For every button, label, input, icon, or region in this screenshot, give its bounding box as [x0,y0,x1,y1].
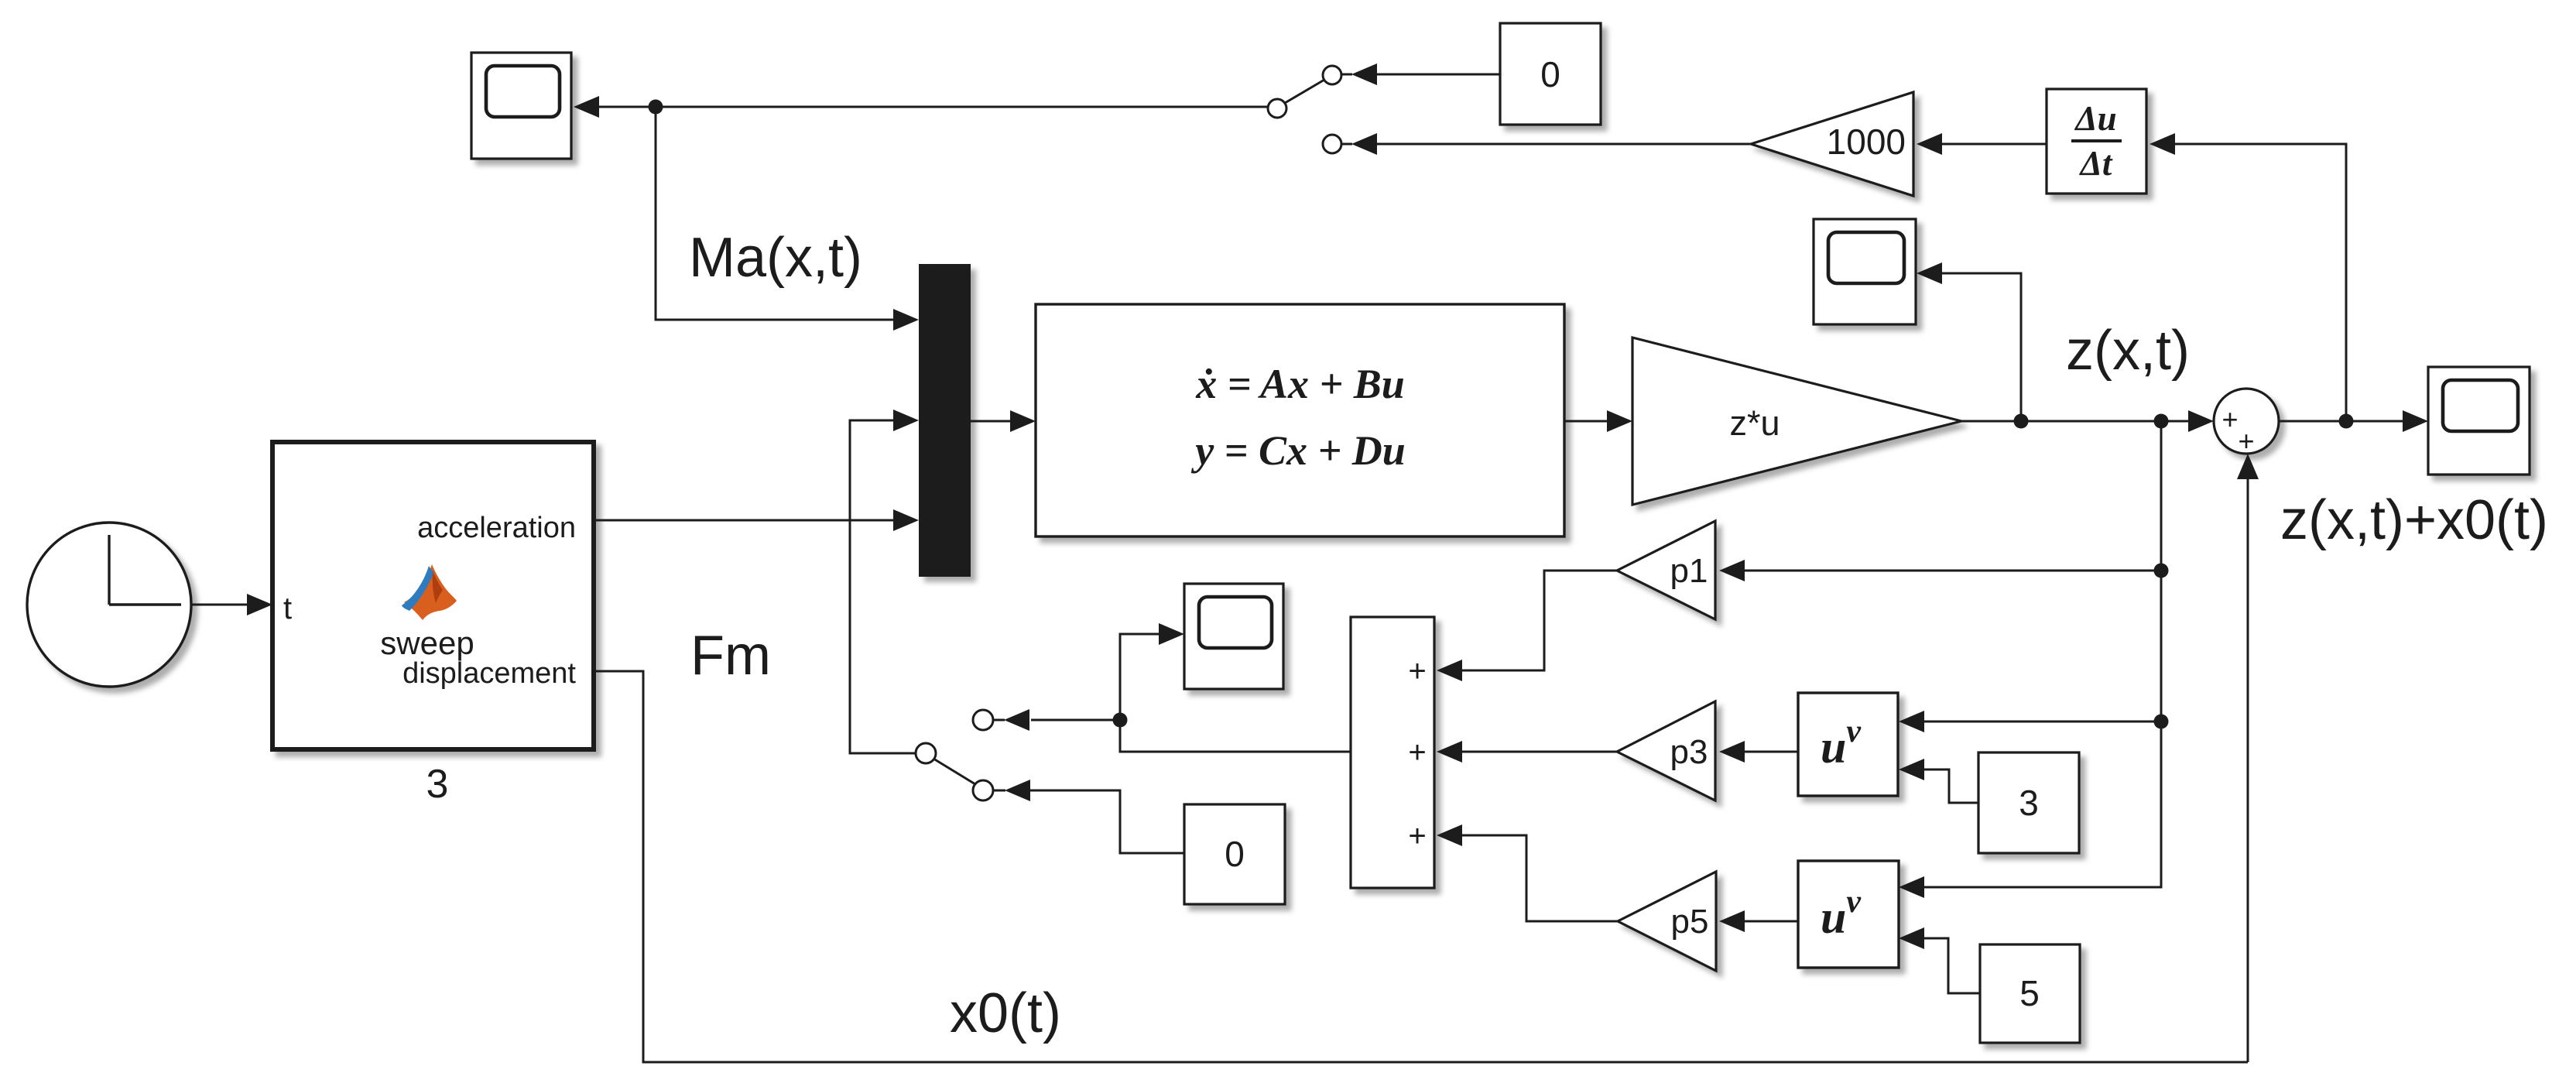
junction dot z(x,t) at 2611 [2014,414,2029,429]
wire state-space to gain z*u [1564,410,1632,432]
svg-text:sweep: sweep [380,625,474,661]
wire sum to Scope3 [2279,410,2428,432]
manual switch (bottom, Fm) [916,710,1005,800]
wire gain 1000 input from Delta block [1917,133,2047,155]
block Delta u / Delta t (difference) [2047,89,2146,194]
wire clock to subsystem [192,594,272,615]
wire u^v to gain p3 [1719,741,1798,763]
gain 1000 [1751,92,1913,196]
scope block Scope2 [1814,219,1916,324]
wire to bottom switch upper throw [1004,709,1120,731]
svg-text:0: 0 [1540,54,1560,94]
junction dot sum output [2339,414,2354,429]
wire Delta block input from feedback [2150,133,2346,421]
constant 5 [1980,944,2080,1043]
svg-text:y = Cx + Du: y = Cx + Du [1190,427,1406,474]
junction dot feedback p1 row [2154,564,2169,578]
svg-text:displacement: displacement [402,657,576,690]
manual switch (top) [1268,66,1352,153]
svg-text:p3: p3 [1670,733,1708,771]
label z(x,t) [2066,320,2190,382]
wire to Scope2 [1917,262,2021,421]
math block u^v (power) upper [1798,693,1898,796]
wire scope1 to top switch pole [599,106,1267,108]
wire acceleration to mux input 3 [594,509,919,531]
wire p1 to sum input 1 [1437,571,1617,681]
svg-text:Δt: Δt [2079,144,2113,183]
svg-text:0: 0 [1225,834,1245,874]
wire z*u output z(x,t) [1961,410,2214,432]
label Fm [690,625,771,687]
svg-text:x0(t): x0(t) [950,982,1061,1044]
label z(x,t)+x0(t) [2280,489,2548,551]
wire feedback to gain p1 [1719,560,2161,581]
svg-text:t: t [283,591,292,626]
label x0(t) [950,982,1061,1044]
math block u^v (power) lower [1798,861,1899,968]
wire u^v lower to gain p5 [1719,910,1798,932]
junction dot z(x,t) at 2792 [2154,414,2169,429]
subsystem sweep (MATLAB Function) [272,442,594,749]
gain p1 [1617,521,1715,619]
svg-text:z(x,t)+x0(t): z(x,t)+x0(t) [2280,489,2548,551]
svg-text:ẋ = Ax + Bu: ẋ = Ax + Bu [1195,361,1405,407]
svg-text:+: + [2221,403,2238,435]
wire sum output to Scope4 and switch [1120,623,1351,752]
label 3 under subsystem [426,762,449,807]
wire feedback to u^v upper input [1899,711,2161,732]
wire feedback down right side [1899,421,2161,898]
scope block Scope1 (top left) [471,53,571,159]
wire x0(t) up into sum [2237,454,2259,1062]
gain z*u [1632,338,1961,505]
svg-text:+: + [2238,425,2254,457]
arrow into Scope1 [574,96,599,118]
wire displacement x0(t) bottom run [594,671,2248,1062]
svg-text:+: + [1408,735,1426,770]
svg-text:acceleration: acceleration [417,512,576,544]
label Ma(x,t) [689,227,862,289]
svg-text:Δu: Δu [2074,99,2116,138]
wire p3 to sum input 2 [1437,741,1617,763]
svg-text:p1: p1 [1670,552,1708,590]
svg-text:Fm: Fm [690,625,771,687]
wire top switch upper throw to constant 0 [1351,63,1500,85]
wire p5 to sum input 3 [1437,824,1618,921]
sum junction circle [2214,389,2279,457]
constant 0 (bottom) [1184,804,1285,904]
wire mux input 2 from switch pole [850,410,919,753]
svg-text:p5: p5 [1671,903,1709,941]
scope block Scope3 (output) [2428,367,2530,475]
gain p3 [1617,701,1715,800]
svg-text:3: 3 [426,762,449,807]
svg-text:1000: 1000 [1827,122,1906,162]
svg-text:z*u: z*u [1729,403,1780,443]
svg-text:+: + [1408,654,1426,688]
wire Ma(x,t) branch to mux input 1 [656,107,919,331]
wire constant 0 to bottom switch lower throw [1005,780,1184,853]
wire constant 5 to u^v lower input [1899,927,1980,993]
svg-text:Ma(x,t): Ma(x,t) [689,227,862,289]
gain p5 [1618,872,1716,971]
junction dot at switch branch [1113,713,1128,728]
svg-text:z(x,t): z(x,t) [2066,320,2190,382]
svg-text:3: 3 [2019,783,2039,823]
svg-text:5: 5 [2019,973,2040,1013]
wire mux to state-space [971,410,1036,432]
constant 0 (top) [1500,23,1601,125]
svg-text:+: + [1408,819,1426,853]
junction dot feedback uv row [2154,715,2169,729]
constant 3 [1978,752,2079,853]
sum block (3 inputs) [1351,617,1434,888]
scope block Scope4 [1184,584,1283,689]
mux [919,264,971,577]
state-space block [1036,304,1564,536]
clock source [27,523,191,687]
junction dot near scope1 [649,100,663,115]
wire top switch lower throw to gain 1000 [1351,133,1750,155]
wire constant 3 to u^v lower input [1899,759,1978,803]
